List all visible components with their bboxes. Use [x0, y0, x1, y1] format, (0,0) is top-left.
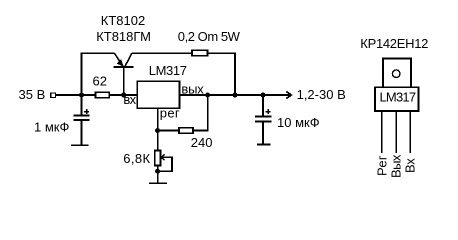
ground C2	[257, 144, 271, 146]
wire collector rail	[132, 52, 192, 54]
wire reg pin	[157, 108, 159, 130]
svg-text:КР142ЕН12: КР142ЕН12	[360, 36, 428, 51]
potentiometer R4 6,8К	[155, 131, 172, 172]
label КТ818ГМ	[96, 29, 151, 44]
wire riser to emitter	[82, 53, 115, 95]
label LM317	[149, 63, 187, 78]
label 0,2 Om 5W	[178, 29, 241, 44]
wire output arrow	[286, 91, 291, 98]
svg-text:LM317: LM317	[149, 63, 187, 78]
label вых	[181, 82, 204, 97]
wire input rail	[55, 94, 137, 96]
ground pot	[149, 171, 167, 183]
label 35 В	[19, 87, 46, 102]
label Вых	[389, 154, 404, 178]
label вх	[123, 92, 136, 107]
node 35V input terminal	[51, 93, 56, 98]
package U1 hole	[392, 70, 400, 78]
svg-text:1,2-30 В: 1,2-30 В	[297, 87, 346, 102]
label Рег	[374, 155, 389, 176]
label КТ8102	[101, 13, 145, 28]
ground C1	[71, 144, 89, 146]
label КР142ЕН12	[360, 36, 428, 51]
svg-text:6,8К: 6,8К	[123, 151, 150, 166]
node cap junction	[261, 93, 266, 98]
resistor R2 0,2 Om 5W	[192, 50, 208, 56]
svg-text:Вых: Вых	[389, 154, 404, 178]
svg-text:КТ818ГМ: КТ818ГМ	[96, 29, 151, 44]
node 240 junction	[205, 93, 210, 98]
wire output rail	[180, 94, 291, 96]
label LM317 package	[380, 89, 416, 104]
label 1 мкФ	[34, 120, 69, 135]
wire reg to R3	[158, 130, 179, 132]
transistor Q1 KT8102	[114, 53, 134, 95]
svg-text:240: 240	[191, 135, 213, 150]
label 240	[191, 135, 213, 150]
label рег	[160, 106, 180, 121]
svg-text:Вх: Вх	[402, 158, 417, 173]
label Вх	[402, 158, 417, 173]
svg-text:рег: рег	[160, 106, 180, 121]
svg-text:35 В: 35 В	[19, 87, 46, 102]
label 6,8К	[123, 151, 150, 166]
label 1,2-30 В	[297, 87, 346, 102]
op-amp U1 LM317 box	[137, 81, 179, 108]
node pot junction	[155, 169, 160, 174]
node base junction	[121, 93, 126, 98]
capacitor C2 10 мкФ	[255, 95, 272, 145]
label 10 мкФ	[277, 115, 320, 130]
pin 3 Вх	[409, 111, 411, 153]
pin 1 Рег	[381, 111, 383, 153]
svg-text:КТ8102: КТ8102	[101, 13, 145, 28]
label 62	[93, 74, 107, 89]
package U1 body	[375, 87, 419, 111]
svg-text:вх: вх	[123, 92, 136, 107]
resistor R1 62	[96, 92, 110, 97]
wire rail to output	[208, 53, 236, 95]
node collector junction	[233, 93, 238, 98]
resistor R3 240	[179, 128, 193, 133]
svg-text:62: 62	[93, 74, 107, 89]
capacitor C1 1 мкФ	[74, 95, 90, 145]
svg-text:0,2 Om 5W: 0,2 Om 5W	[178, 29, 241, 44]
node input junction	[79, 93, 84, 98]
pin 2 Вых	[395, 111, 397, 153]
svg-text:Рег: Рег	[374, 155, 389, 176]
node reg junction	[155, 128, 160, 133]
package U1 tab	[383, 59, 411, 88]
svg-text:10 мкФ: 10 мкФ	[277, 115, 320, 130]
svg-text:LM317: LM317	[380, 89, 416, 104]
svg-text:1 мкФ: 1 мкФ	[34, 120, 69, 135]
wire R3 to output	[193, 95, 208, 131]
